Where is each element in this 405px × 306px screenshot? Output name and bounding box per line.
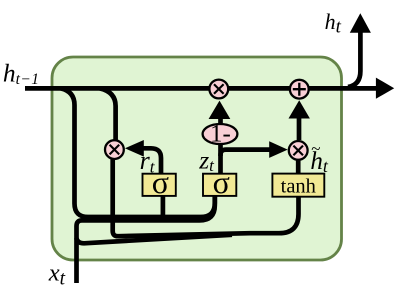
arrowhead: output right <box>376 78 394 99</box>
svg-text:xt: xt <box>48 259 66 289</box>
svg-text:ht: ht <box>325 9 342 37</box>
wire: reset product to tanh input <box>113 160 299 237</box>
wire: main h line <box>25 86 377 91</box>
arrowhead: into update x <box>269 141 288 158</box>
op: add on main line <box>290 80 309 99</box>
svg-text:σ: σ <box>213 164 230 200</box>
wire: h branch A (to sigma bus) <box>61 88 215 217</box>
gate: tanh box <box>272 174 324 198</box>
gate: sigma_r box <box>143 164 176 200</box>
svg-text:tanh: tanh <box>281 175 316 197</box>
wire: h_t branch up <box>348 32 360 87</box>
op: multiply on main line <box>209 80 228 99</box>
wire: z vertical sigma_z to 1- <box>218 145 223 175</box>
arrowhead: into reset x <box>125 140 144 157</box>
wire: z branch right to update x <box>221 150 270 156</box>
arrowhead: into main x <box>209 101 231 119</box>
wire: 1- to main x stem <box>218 119 223 124</box>
svg-text:ht−1: ht−1 <box>3 59 39 88</box>
svg-text:1-: 1- <box>210 121 231 148</box>
wire: sigma_r input tee <box>161 196 166 222</box>
gate: sigma_z box <box>203 164 236 200</box>
arrowhead: into plus <box>289 100 310 118</box>
svg-text:~: ~ <box>311 139 320 158</box>
wire: x_t sloped branch to tanh bus <box>77 235 233 244</box>
wire: tanh output to update x <box>296 160 301 174</box>
wire: update x to plus stem <box>297 119 302 141</box>
wire: r gate output to reset x <box>143 148 161 174</box>
op: update multiply <box>289 141 308 160</box>
op: one-minus ellipse <box>203 121 238 148</box>
wire: h branch B (into reset x) <box>100 88 116 140</box>
wire: x_t input vertical and bus2 to sigma_z <box>77 196 215 283</box>
cell body (GRU cell box) <box>52 57 342 260</box>
op: reset multiply <box>105 140 124 159</box>
arrowhead: h_t up <box>350 13 371 33</box>
